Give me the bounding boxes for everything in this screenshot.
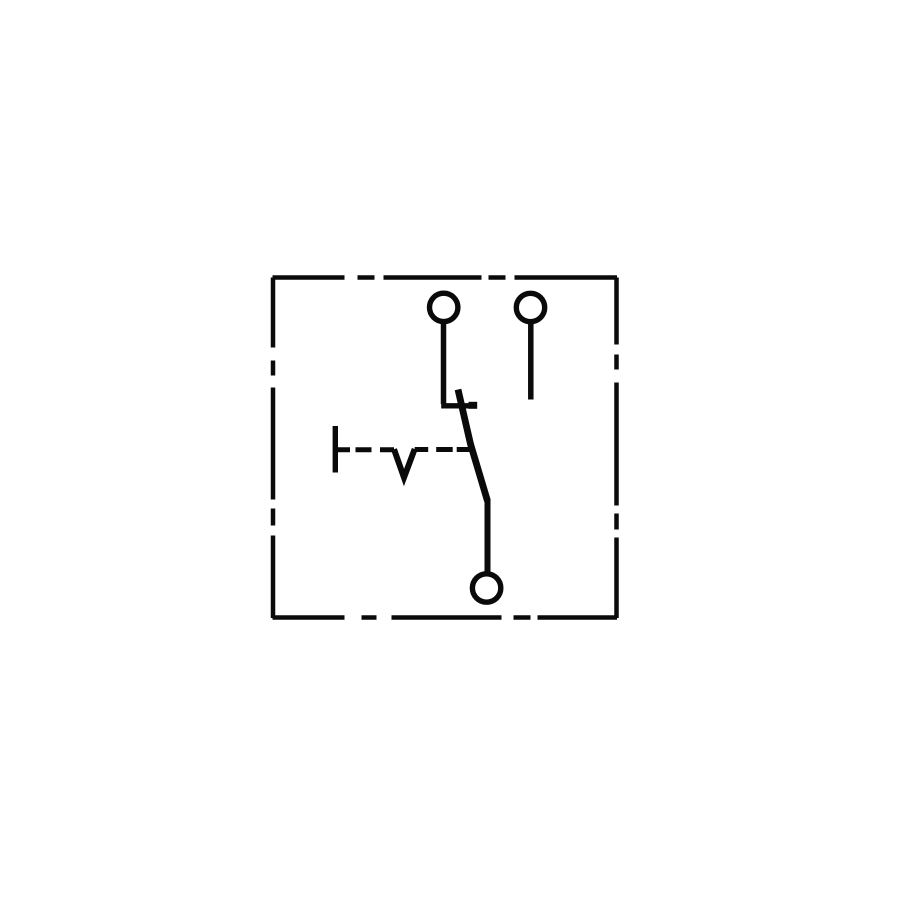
terminal T1 (top-left circle) (430, 293, 458, 321)
terminal T2 (top-right circle) (516, 293, 544, 321)
wire: lever to T3 (485, 499, 491, 574)
enclosure left edge (271, 278, 276, 619)
terminal T3 (common, bottom circle) (472, 574, 500, 602)
contact nib (469, 402, 478, 409)
fixed contact foot (441, 403, 477, 408)
enclosure top edge (273, 275, 618, 280)
mechanical link (dashed) left part (338, 447, 395, 452)
mechanical link (dashed) right part (415, 447, 472, 452)
moving contact lever (458, 390, 488, 502)
actuator head bar (333, 426, 338, 473)
enclosure right edge (614, 278, 619, 619)
enclosure bottom edge (273, 615, 618, 620)
wire: T1 stem (441, 321, 447, 404)
wire: T2 stem (528, 321, 534, 400)
detent notch V (394, 449, 415, 478)
